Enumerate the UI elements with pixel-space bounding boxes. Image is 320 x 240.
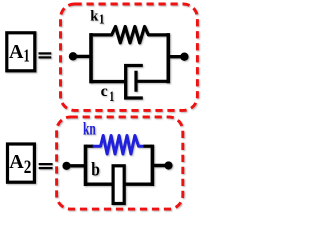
wire left 2 <box>67 164 86 167</box>
wire right 1 <box>168 55 184 58</box>
wire left bar 2 <box>84 145 88 186</box>
wire bottom branch 2 <box>86 182 153 185</box>
node dot left 1 <box>69 52 77 60</box>
damper box b <box>113 166 124 204</box>
dashed box 1 <box>61 4 198 110</box>
damper cup c1 <box>126 66 143 99</box>
wire left 1 <box>73 55 91 58</box>
damper rod c1 <box>136 80 168 83</box>
wire top branch lead left 2 <box>86 145 94 148</box>
spring k1 <box>91 27 168 43</box>
wire left bar 1 <box>89 33 93 83</box>
node dot left 2 <box>62 162 70 170</box>
damper piston c1 <box>134 71 137 92</box>
node dot right 2 <box>164 161 172 169</box>
node dot right 1 <box>180 53 188 61</box>
wire right 2 <box>152 164 168 167</box>
spring kn (blue) <box>93 136 144 155</box>
label box A2 <box>8 144 35 182</box>
svg-text:kn: kn <box>83 118 96 138</box>
equals sign 2 <box>39 163 53 169</box>
svg-text:A1: A1 <box>9 41 30 65</box>
wire bottom branch 1 <box>91 80 126 83</box>
svg-text:c1: c1 <box>101 83 115 105</box>
label box A1 <box>7 33 35 71</box>
equals sign 1 <box>39 52 52 58</box>
wire right bar 2 <box>151 145 155 186</box>
wire top branch lead right 2 <box>144 145 153 148</box>
svg-text:k1: k1 <box>90 9 104 28</box>
svg-text:b: b <box>91 160 100 181</box>
wire right bar 1 <box>167 33 171 83</box>
dashed box 2 <box>57 117 183 209</box>
